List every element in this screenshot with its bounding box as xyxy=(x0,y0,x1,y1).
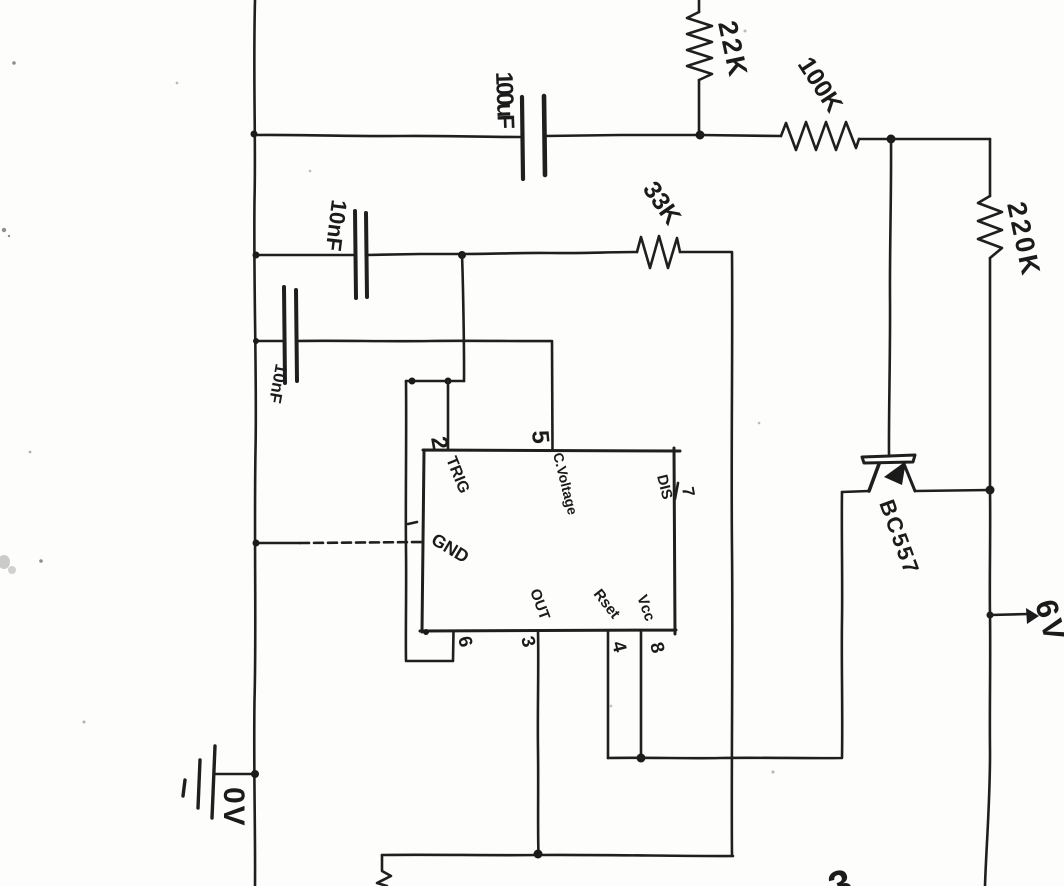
svg-text:100uF: 100uF xyxy=(490,71,519,129)
wire reset rail to transistor xyxy=(608,492,842,758)
svg-text:5: 5 xyxy=(526,429,554,445)
wire left vertical bus xyxy=(254,0,256,886)
capacitor C3 10nF xyxy=(265,287,297,405)
node C junction xyxy=(458,251,466,259)
capacitor C2 10nF xyxy=(321,198,367,298)
wire GND pin to bus (sketchy) xyxy=(255,542,300,545)
resistor R1 22K vertical xyxy=(687,0,754,135)
wire loop pin2 to pin6 xyxy=(406,381,454,661)
wire node B down to Q1 base xyxy=(889,139,891,454)
pin 1 dash xyxy=(408,522,417,524)
wire right vertical to bottom xyxy=(985,490,990,886)
node A junction xyxy=(696,131,705,140)
node bus-C3 junction xyxy=(253,338,259,344)
wire C1 to node A xyxy=(545,135,699,136)
wire node C down to pin2 tee xyxy=(462,255,464,381)
wire node B to top of R3 xyxy=(891,138,990,141)
node tee right junction xyxy=(445,378,452,385)
wire top horizontal to C1 xyxy=(255,135,521,137)
wire node A to R2 xyxy=(700,135,781,136)
wire pin8 stub xyxy=(640,631,643,758)
node pin4/8 junction xyxy=(637,754,646,763)
node D junction xyxy=(986,486,995,495)
wire bottom horizontal xyxy=(382,855,733,856)
node pin6 corner junction xyxy=(423,629,429,635)
wire pin4 stub xyxy=(607,631,610,758)
wire C2 to node C xyxy=(367,254,462,255)
resistor R3 220K vertical xyxy=(978,139,1046,490)
wire C3 to pin5 xyxy=(297,341,553,450)
capacitor C1 100uF xyxy=(490,71,545,179)
ground 0V xyxy=(183,746,259,828)
node bus-top junction xyxy=(251,131,258,138)
power 6V arrow xyxy=(987,596,1064,647)
node tee left junction xyxy=(409,378,416,385)
wire pin2 stub xyxy=(447,381,450,450)
IC U1 555 timer body xyxy=(420,448,680,634)
wire emitter rail xyxy=(842,491,869,492)
node bus-C2 junction xyxy=(253,252,260,259)
wire R4 to corner and down xyxy=(680,252,732,856)
svg-text:0V: 0V xyxy=(217,787,250,828)
resistor R2 100K horizontal xyxy=(781,52,859,150)
wire R2 to node B xyxy=(859,138,891,141)
wire pin3 OUT down xyxy=(537,631,540,854)
pin 7 stub xyxy=(675,483,678,499)
node B junction xyxy=(887,135,896,144)
wire node C to R4 xyxy=(462,252,637,254)
node bus-GND junction xyxy=(253,540,260,547)
node OUT-bottom junction xyxy=(534,850,543,859)
transistor Q1 BC557 xyxy=(862,455,925,578)
wire second horizontal to C2 xyxy=(255,254,354,257)
paper smudges xyxy=(0,30,775,774)
wire third horizontal to C3 xyxy=(255,340,283,343)
wire tee above pin 2 xyxy=(406,380,464,383)
resistor R4 33K horizontal xyxy=(637,176,686,268)
resistor R5 partial at bottom edge xyxy=(377,855,391,886)
